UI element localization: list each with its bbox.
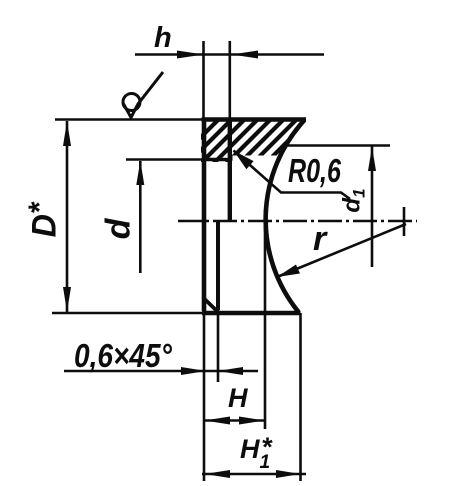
bore wall edge d	[126, 158, 204, 161]
extension line chamfer edge below	[217, 310, 220, 382]
dimension line d1	[371, 146, 374, 267]
extension line H1 right	[299, 313, 302, 481]
dimension line 0.6x45	[64, 370, 258, 373]
extension line H right	[264, 210, 267, 429]
arrow D* top	[63, 121, 71, 146]
extension line chamfer left below	[203, 313, 206, 481]
label H	[228, 385, 248, 412]
label r	[313, 222, 326, 256]
fillet R0.6 at bore corner	[226, 160, 230, 165]
wire top face outline	[55, 118, 204, 121]
label H1*	[240, 436, 281, 463]
leader line R0.6	[234, 151, 351, 200]
hatch section lines	[173, 116, 326, 165]
arrow d1 top	[368, 147, 376, 172]
chamfer edge 0.6x45	[204, 299, 218, 312]
label h	[154, 24, 172, 53]
dimension line d	[139, 161, 142, 273]
label 0,6x45	[74, 339, 172, 372]
extension line h left	[202, 41, 205, 118]
dimension line H	[204, 419, 265, 422]
label R0,6	[288, 154, 341, 187]
arrow H1 left	[205, 470, 231, 478]
arrow H right	[239, 417, 265, 425]
surface finish symbol	[123, 72, 163, 118]
arrow 0.6x45 left-pointing	[218, 367, 244, 375]
label D*	[23, 203, 61, 238]
dimension line H1	[202, 473, 306, 476]
arrow D* bottom	[63, 287, 71, 312]
arrow h right	[232, 51, 259, 59]
label d	[101, 219, 135, 240]
dimension line D*	[66, 121, 69, 312]
arrow r leader	[277, 265, 300, 278]
chamfer edge circle line lower half	[216, 222, 220, 310]
concave arc r profile	[266, 120, 305, 312]
arrowheads	[63, 51, 376, 479]
leader line r	[277, 224, 406, 277]
arrow H left	[205, 417, 231, 425]
arrow d top	[136, 161, 144, 186]
extension line d1 top	[284, 144, 390, 147]
extension line h right	[229, 41, 232, 118]
arrow H1 right	[276, 470, 301, 478]
dimension line h	[135, 53, 324, 56]
label d1	[341, 188, 368, 212]
bore bottom edge vertical	[228, 120, 232, 221]
arrow R0.6 leader	[234, 151, 254, 170]
centerline axis	[178, 220, 417, 223]
wire left face outline	[202, 118, 207, 312]
center mark cross of r	[403, 207, 406, 236]
arrow 0.6x45 right-pointing	[181, 367, 206, 375]
wire bottom face outline	[52, 312, 204, 315]
arrow h left	[177, 51, 204, 59]
